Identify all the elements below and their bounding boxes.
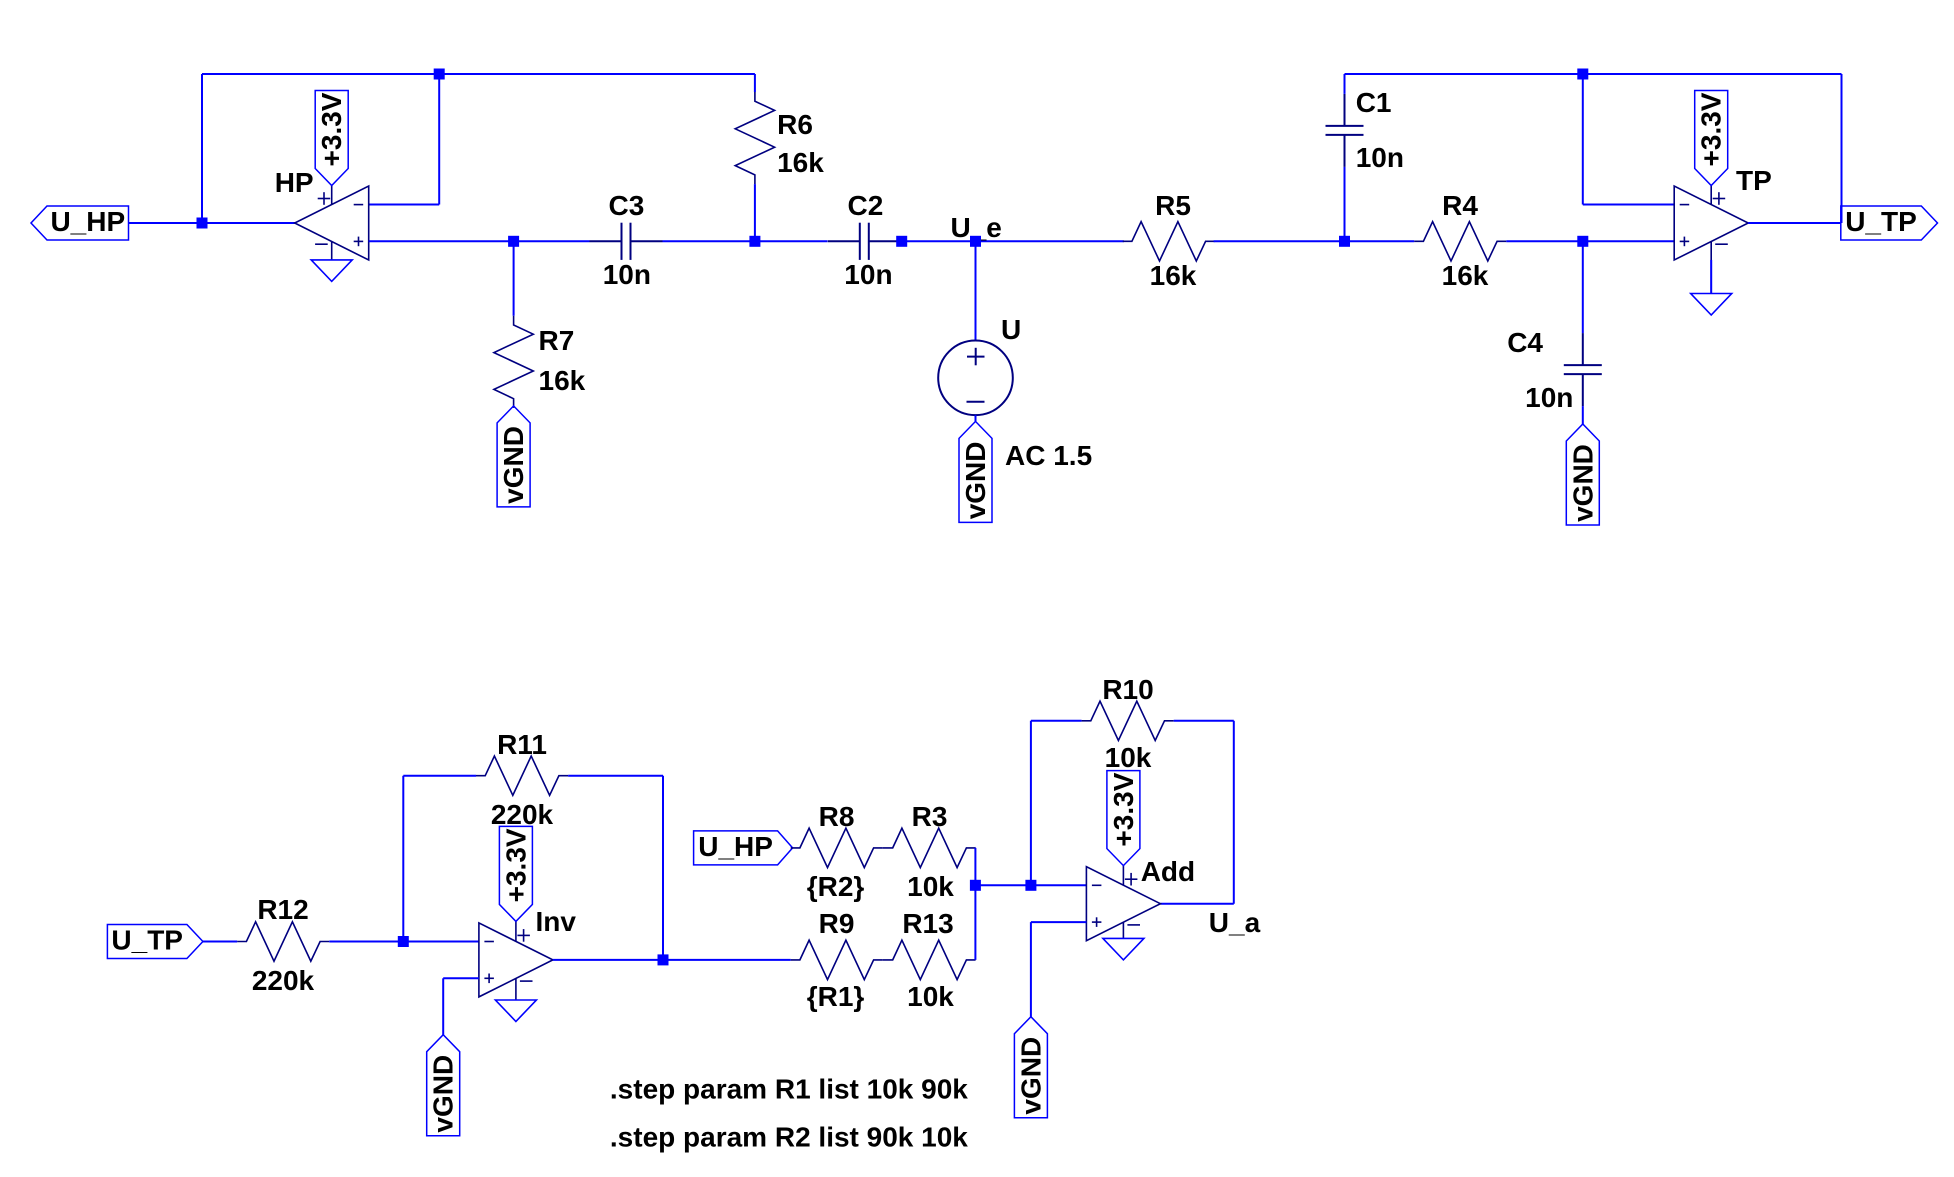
op-amp TP <box>1674 186 1748 294</box>
wire feedback vertical at HP output <box>201 74 203 223</box>
junction R10 feedback tap <box>1025 880 1036 891</box>
svg-text:vGND: vGND <box>960 442 991 520</box>
svg-text:U_HP: U_HP <box>698 831 773 862</box>
svg-text:HP: HP <box>275 167 314 198</box>
power flag vGND below R7 <box>497 406 530 507</box>
wire C4 to vGND <box>1582 406 1584 424</box>
wire R11 left vertical <box>402 776 404 942</box>
svg-text:vGND: vGND <box>498 426 529 504</box>
wire Inv + to vGND vertical <box>442 978 444 1034</box>
power flag vGND below C4 <box>1566 424 1599 525</box>
resistor R10 <box>1082 701 1174 740</box>
svg-text:10k: 10k <box>907 981 954 1012</box>
svg-text:16k: 16k <box>777 147 824 178</box>
wire R9 to R13 <box>882 959 885 961</box>
svg-text:220k: 220k <box>252 965 315 996</box>
junction top wire to HP inverting input <box>434 69 445 80</box>
junction node U_e label anchor <box>896 236 907 247</box>
svg-text:R5: R5 <box>1155 190 1191 221</box>
ground at HP V- <box>311 260 352 282</box>
junction R6 bottom node <box>749 236 760 247</box>
wire Add noninverting input <box>1031 921 1087 923</box>
resistor R7 <box>494 316 533 408</box>
resistor R3 <box>884 828 976 867</box>
wire TP feedback vertical <box>1841 74 1843 223</box>
wire vertical to TP inverting input <box>1582 74 1584 205</box>
op-amp HP <box>295 186 369 261</box>
ground at TP V- <box>1691 294 1732 316</box>
wire to R10 <box>1031 720 1082 722</box>
svg-text:+3.3V: +3.3V <box>1696 92 1727 166</box>
svg-text:C3: C3 <box>609 190 645 221</box>
wire R13 up to sum node <box>974 885 976 960</box>
wire node to source U <box>975 241 977 340</box>
svg-text:vGND: vGND <box>1015 1037 1046 1115</box>
svg-text:R4: R4 <box>1442 190 1478 221</box>
svg-text:R6: R6 <box>777 109 813 140</box>
svg-text:.step param R2 list 90k 10k: .step param R2 list 90k 10k <box>610 1122 968 1153</box>
net flag U_TP (input to inverter) <box>107 925 202 959</box>
wire HP top feedback horizontal <box>202 73 755 75</box>
svg-text:U: U <box>1001 314 1021 345</box>
capacitor C4 <box>1564 333 1602 406</box>
wire U_TP to R12 <box>203 941 237 943</box>
svg-text:U_a: U_a <box>1209 907 1261 938</box>
wire Add + to vGND vertical <box>1030 922 1032 1017</box>
wire R5 to C1 node <box>1214 240 1415 242</box>
op-amp Add <box>1086 866 1160 941</box>
svg-text:+3.3V: +3.3V <box>316 92 347 166</box>
svg-text:AC 1.5: AC 1.5 <box>1005 440 1092 471</box>
svg-text:vGND: vGND <box>1567 444 1598 522</box>
power flag +3.3V at Add <box>1107 771 1140 866</box>
wire R11 right <box>568 775 663 777</box>
junction R7 tap <box>508 236 519 247</box>
resistor R9 <box>791 940 883 979</box>
net flag U_TP (output of TP stage) <box>1841 206 1938 240</box>
capacitor C1 <box>1326 94 1364 167</box>
svg-text:16k: 16k <box>539 365 586 396</box>
resistor R13 <box>884 940 976 979</box>
wire R11 right vertical <box>662 776 664 960</box>
resistor R11 <box>476 756 568 795</box>
power flag +3.3V at TP <box>1695 91 1728 186</box>
wire C1 node vertical <box>1344 167 1346 241</box>
junction top wire to TP inverting input <box>1577 69 1588 80</box>
svg-text:10n: 10n <box>1525 382 1573 413</box>
junction Inv output feedback tap <box>658 954 669 965</box>
svg-text:vGND: vGND <box>428 1055 459 1133</box>
wire to R11 <box>403 775 476 777</box>
wire R6 to main row <box>754 184 756 241</box>
wire C3 to R6 node <box>663 240 755 242</box>
wire source to vGND <box>975 415 977 421</box>
wire R6 node to C2 <box>755 240 828 242</box>
capacitor C2 <box>828 223 901 260</box>
wire R10 left vertical <box>1030 721 1032 886</box>
wire C1 to top wire <box>1344 74 1346 94</box>
power flag +3.3V at Inv <box>499 826 532 921</box>
wire U_HP flag to HP output <box>129 222 296 224</box>
svg-text:10k: 10k <box>1105 742 1152 773</box>
wire R7 top <box>513 241 515 315</box>
svg-text:+3.3V: +3.3V <box>1108 772 1139 846</box>
power flag vGND below Add <box>1014 1017 1047 1118</box>
svg-text:Inv: Inv <box>536 906 577 937</box>
resistor R4 <box>1414 222 1506 261</box>
svg-text:R12: R12 <box>257 894 308 925</box>
svg-text:Add: Add <box>1141 856 1195 887</box>
wire top to R6 <box>754 74 756 92</box>
svg-text:U_TP: U_TP <box>1845 206 1917 237</box>
svg-text:R8: R8 <box>819 801 855 832</box>
wire HP noninverting input to C3 <box>369 240 590 242</box>
svg-text:R7: R7 <box>539 325 575 356</box>
op-amp Inv <box>479 921 553 1000</box>
power flag vGND below source U <box>959 421 992 522</box>
net flag U_HP (input to summer) <box>694 831 793 865</box>
wire R3 right corner <box>974 847 976 849</box>
wire R10 right vertical <box>1233 721 1235 904</box>
junction sum node <box>970 880 981 891</box>
svg-text:TP: TP <box>1736 165 1772 196</box>
wire Inv noninverting input <box>443 977 479 979</box>
power flag +3.3V at HP <box>315 91 348 186</box>
svg-text:16k: 16k <box>1150 260 1197 291</box>
svg-text:C1: C1 <box>1356 87 1392 118</box>
wire R3 down to sum node <box>974 848 976 885</box>
junction HP output feedback tap <box>197 218 208 229</box>
svg-text:{R2}: {R2} <box>807 871 865 902</box>
wire TP V- to ground <box>1710 260 1712 294</box>
svg-text:C2: C2 <box>848 190 884 221</box>
svg-text:R3: R3 <box>912 801 948 832</box>
wire TP output <box>1748 222 1841 224</box>
wire R10 right <box>1174 720 1234 722</box>
svg-text:10n: 10n <box>844 259 892 290</box>
wire C4 top <box>1582 241 1584 333</box>
svg-text:+3.3V: +3.3V <box>500 828 531 902</box>
wire Add output <box>1160 903 1233 905</box>
junction C4 tap <box>1577 236 1588 247</box>
wire TP inverting input <box>1583 204 1674 206</box>
junction source U tap <box>970 236 981 247</box>
svg-text:R10: R10 <box>1102 674 1153 705</box>
capacitor C3 <box>590 223 663 260</box>
wire sum node to Add inverting input <box>975 884 1086 886</box>
svg-text:{R1}: {R1} <box>807 981 865 1012</box>
ground at Inv V- <box>495 1000 536 1022</box>
svg-text:U_TP: U_TP <box>111 925 183 956</box>
ground at Add V- <box>1103 938 1144 960</box>
svg-text:R11: R11 <box>497 729 547 760</box>
resistor R5 <box>1123 222 1215 261</box>
wire R8 to R3 <box>882 847 885 849</box>
svg-text:C4: C4 <box>1507 327 1543 358</box>
net flag U_HP (output of HP stage) <box>31 206 129 240</box>
wire C2 to U_e node <box>901 240 1124 242</box>
wire HP inverting input <box>369 204 440 206</box>
svg-text:16k: 16k <box>1442 260 1489 291</box>
svg-text:R13: R13 <box>902 908 953 939</box>
svg-text:220k: 220k <box>491 799 554 830</box>
voltage source U <box>938 341 1013 416</box>
junction C1 bottom node <box>1339 236 1350 247</box>
svg-text:U_HP: U_HP <box>50 206 125 237</box>
power flag vGND below Inv <box>427 1035 460 1136</box>
wire R12 to Inv inverting input <box>329 941 479 943</box>
wire TP top feedback horizontal <box>1345 73 1842 75</box>
svg-text:10n: 10n <box>1356 142 1404 173</box>
svg-text:10n: 10n <box>603 259 651 290</box>
svg-text:R9: R9 <box>819 908 855 939</box>
wire R4 to TP noninverting input <box>1506 240 1674 242</box>
wire vertical to HP inverting input <box>438 74 440 205</box>
resistor R6 <box>735 92 774 184</box>
svg-text:10k: 10k <box>907 871 954 902</box>
wire Inv output <box>553 959 791 961</box>
resistor R8 <box>791 828 883 867</box>
resistor R12 <box>237 922 329 961</box>
junction R11 left tap <box>398 936 409 947</box>
svg-text:.step param R1 list 10k 90k: .step param R1 list 10k 90k <box>610 1073 968 1104</box>
